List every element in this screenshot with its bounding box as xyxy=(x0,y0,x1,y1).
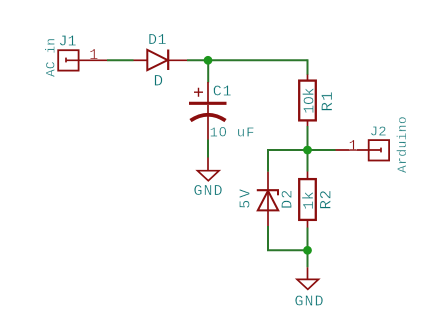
svg-text:AC in: AC in xyxy=(44,38,59,77)
wire node C to GND2 xyxy=(307,250,309,267)
connector J1 xyxy=(58,50,107,70)
svg-text:R1: R1 xyxy=(319,90,337,111)
connector J2 xyxy=(336,140,390,160)
svg-text:GND: GND xyxy=(194,183,224,200)
svg-text:R2: R2 xyxy=(318,189,336,209)
svg-text:Arduino: Arduino xyxy=(395,116,410,173)
wire C1 to GND1 xyxy=(207,140,209,158)
wire R1 to node B xyxy=(307,126,309,150)
svg-text:10k: 10k xyxy=(301,87,319,113)
wire R2 to node C xyxy=(307,228,309,251)
svg-text:1: 1 xyxy=(349,138,358,155)
svg-text:J1: J1 xyxy=(59,34,77,51)
junction node C xyxy=(303,246,312,255)
svg-text:D: D xyxy=(154,73,164,91)
wire node B to R2 xyxy=(307,150,309,172)
junction node B xyxy=(303,146,312,155)
svg-text:10 uF: 10 uF xyxy=(210,123,256,141)
resistor R1 xyxy=(299,75,316,127)
diode D1 xyxy=(134,50,188,71)
ground GND2 xyxy=(297,267,319,289)
wire D1 to node A xyxy=(187,59,308,61)
svg-text:1k: 1k xyxy=(301,191,318,210)
svg-text:GND: GND xyxy=(295,293,325,310)
wire node A to C1 xyxy=(207,60,209,82)
zener diode D2 xyxy=(257,172,279,226)
svg-text:J2: J2 xyxy=(370,125,387,141)
wire node A to R1 xyxy=(307,59,309,75)
svg-text:5V: 5V xyxy=(237,187,254,209)
ground GND1 xyxy=(198,158,220,181)
svg-text:C1: C1 xyxy=(213,84,233,101)
wire J1 to D1 xyxy=(107,59,134,61)
junction node A xyxy=(204,56,213,65)
wire node B to J2 xyxy=(308,149,336,151)
wire D2 to node C xyxy=(268,226,308,250)
svg-text:D1: D1 xyxy=(148,32,167,49)
svg-text:1: 1 xyxy=(89,47,98,64)
wire node B to D2 xyxy=(268,150,308,172)
resistor R2 xyxy=(299,172,316,228)
svg-text:D2: D2 xyxy=(279,188,296,208)
capacitor C1 xyxy=(189,82,227,140)
